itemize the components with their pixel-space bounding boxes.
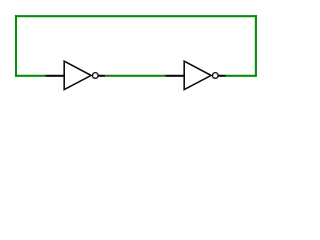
wire: U1 input stub (black) [46,75,65,77]
wire: U2 input stub (black) [165,75,184,77]
inverter U2 [184,61,218,89]
wire: U1 output stub (black) [98,75,105,77]
wire: U1 output to U2 input net (green) [105,75,165,77]
inverter U1 [64,61,98,89]
wire: feedback loop top segment [15,15,257,17]
wire: feedback loop right vertical segment [255,15,257,77]
wire: U2 output stub (black) [218,75,225,77]
wire: U1 input net (green) [15,75,45,77]
wire: feedback loop left vertical segment [15,15,17,77]
wire: U2 output net to right vertical (green) [226,75,256,77]
